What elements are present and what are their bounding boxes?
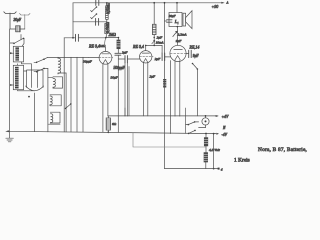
- coil L2 box: [13, 65, 23, 89]
- antenna A2: [20, 13, 31, 29]
- wire L6 bracket: [49, 112, 60, 124]
- wire V3 anode: [177, 27, 179, 46]
- label +90 arrow: [221, 2, 224, 4]
- label 10mA: [152, 40, 155, 44]
- svg-text:L₁: L₁: [174, 19, 179, 24]
- wire V1 grid: [89, 56, 99, 58]
- svg-text:30μμF: 30μμF: [83, 60, 93, 64]
- wire top HT rail: [73, 2, 224, 4]
- wire long x164.5: [164, 3, 166, 169]
- svg-text:0,1MΩ: 0,1MΩ: [106, 22, 111, 33]
- svg-text:-4V: -4V: [222, 133, 228, 137]
- svg-text:9μF: 9μF: [193, 54, 200, 58]
- wire spk verticals: [176, 3, 178, 13]
- rheostat: [106, 118, 110, 130]
- svg-text:2,2mA: 2,2mA: [178, 32, 188, 37]
- wire vertical x66.1: [65, 73, 67, 132]
- capacitor C-g3 plates: [189, 50, 192, 57]
- wire V3 legs: [174, 60, 176, 116]
- coil L3: [58, 57, 61, 74]
- triode V3: [170, 45, 186, 61]
- battery B1: [204, 138, 208, 146]
- capacitor C-rail2: [96, 18, 99, 25]
- capacitor C-ant: [16, 26, 21, 32]
- node tap L2: [10, 84, 12, 86]
- svg-text:30μF: 30μF: [111, 76, 119, 80]
- wire L2 bottom down: [18, 90, 35, 91]
- capacitor C-spk: [167, 20, 172, 22]
- svg-text:500μμF: 500μμF: [114, 66, 126, 70]
- capacitor C-an1: [117, 49, 119, 54]
- stair1 wire: [133, 133, 206, 147]
- svg-text:A: A: [226, 1, 229, 5]
- node grid junction: [105, 37, 107, 39]
- resistor R4 on long vertical: [163, 79, 166, 88]
- coil L1 box: [13, 46, 23, 62]
- svg-text:6Ω: 6Ω: [112, 122, 117, 126]
- switch S6: [188, 122, 198, 125]
- switch arm S8: [66, 104, 71, 109]
- switch arm S3: [34, 59, 44, 62]
- node tap L1: [10, 52, 12, 54]
- capacitor C-coup: [161, 45, 163, 53]
- label 2,2mA + arrow: [173, 31, 177, 36]
- svg-text:2μF: 2μF: [155, 57, 162, 61]
- switch arm S4: [34, 68, 48, 71]
- wire rail2: [73, 21, 107, 23]
- bottom rail: [165, 168, 219, 170]
- ground earth: [6, 131, 14, 141]
- wire L2 top: [17, 64, 19, 66]
- wire V1 anode: [104, 47, 106, 51]
- switch arm S5: [192, 63, 197, 69]
- svg-text:+4V: +4V: [222, 115, 229, 119]
- wire x185.6: [185, 108, 187, 133]
- wire long verticals left: [63, 38, 65, 132]
- switch wave-change: [10, 35, 24, 47]
- svg-text:2μF: 2μF: [157, 35, 164, 39]
- svg-text:N: N: [222, 126, 226, 130]
- svg-text:30μF: 30μF: [169, 14, 176, 18]
- ground rail: [6, 131, 216, 133]
- antenna A1: [4, 12, 16, 29]
- wire L1 bottom to tuning: [22, 62, 32, 70]
- coil L4: [53, 78, 55, 88]
- resistor R3: [153, 24, 157, 34]
- resistor RA rotated-label: [106, 6, 109, 19]
- battery B2: [204, 153, 208, 162]
- wire grid return: [170, 61, 172, 134]
- svg-text:RE 0,4: RE 0,4: [132, 44, 144, 50]
- triode V1: [99, 51, 112, 64]
- wire coil spine: [47, 68, 49, 124]
- svg-text:9μF: 9μF: [176, 39, 183, 43]
- switch S7: [189, 130, 195, 133]
- svg-text:2μF: 2μF: [150, 75, 157, 79]
- variable capacitor tuning box: [27, 70, 43, 88]
- output transformer box: [169, 13, 182, 27]
- LT rail arrow: [216, 133, 219, 135]
- wire rail116 drops: [125, 67, 129, 116]
- wire V2 legs: [143, 63, 145, 116]
- resistor RB rotated-label: [105, 24, 108, 34]
- wire battery chain: [205, 134, 207, 169]
- svg-text:d: d: [221, 168, 223, 172]
- wire left vertical x73: [72, 3, 74, 38]
- coil L5: [50, 96, 52, 106]
- capacitor C-grid2: [125, 56, 127, 63]
- wire right batt vertical: [213, 134, 215, 169]
- wire resistor chain x106.8: [105, 3, 108, 38]
- wire antenna bottom: [10, 28, 25, 30]
- svg-text:10mA: 10mA: [156, 41, 165, 45]
- svg-text:2MΩ: 2MΩ: [109, 33, 117, 37]
- speaker: [183, 13, 186, 26]
- svg-text:1 Kreis: 1 Kreis: [234, 158, 250, 164]
- wire L4 bracket: [48, 77, 63, 88]
- wire L6 drop: [47, 124, 49, 132]
- wire V1 legs: [102, 64, 104, 132]
- switch jack contacts S2: [91, 14, 97, 19]
- svg-text:+90: +90: [212, 4, 219, 9]
- switch jack contacts S1: [91, 7, 97, 12]
- wire left main down: [9, 29, 11, 131]
- svg-text:0,5MΩ: 0,5MΩ: [105, 2, 111, 14]
- lamp: [202, 118, 209, 125]
- svg-text:RE,14: RE,14: [189, 45, 200, 51]
- svg-text:30μF: 30μF: [14, 18, 22, 22]
- filament rail: [108, 115, 218, 117]
- wire grid line y37.8: [64, 37, 106, 39]
- resistor R2: [117, 40, 120, 49]
- coil L6: [51, 114, 53, 123]
- svg-text:4MΩ: 4MΩ: [99, 44, 107, 48]
- triode V2: [140, 51, 152, 63]
- wire L3 bottom: [58, 72, 66, 74]
- svg-text:4,5 Volt: 4,5 Volt: [209, 148, 221, 153]
- svg-text:Nora, B 87, Batterie,: Nora, B 87, Batterie,: [258, 147, 308, 153]
- capacitor C-grid: [76, 34, 79, 41]
- wire to R2: [106, 37, 119, 39]
- wire L5 bracket: [50, 95, 61, 106]
- wire y57 coupling line: [48, 56, 89, 58]
- wire V2 anode: [146, 45, 162, 50]
- svg-text:2μF: 2μF: [122, 51, 129, 55]
- capacitor C-rail1: [96, 0, 99, 5]
